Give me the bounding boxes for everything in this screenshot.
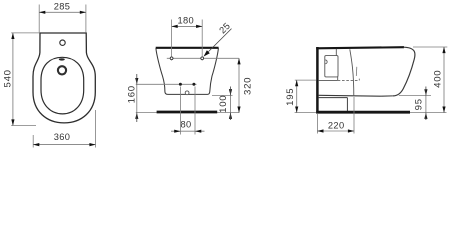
dim 160 top outside arrow <box>135 78 138 84</box>
side front edge <box>393 47 415 96</box>
svg-text:360: 360 <box>54 132 71 142</box>
side bowl rear short line <box>355 67 358 76</box>
front bolt dots line <box>136 83 197 85</box>
svg-text:95: 95 <box>413 98 424 110</box>
dim 360 ext lines <box>32 135 34 148</box>
front bolt dot left <box>179 83 182 86</box>
leader 25 arrowhead <box>204 50 210 56</box>
front top edge (thick) <box>156 47 219 49</box>
dim 95 bottom outside arrow <box>424 113 427 119</box>
side tap deck connector <box>335 49 337 56</box>
front fixing hole right <box>201 57 204 60</box>
svg-text:100: 100 <box>218 95 229 113</box>
dim 180 ext lines <box>171 20 173 61</box>
svg-text:160: 160 <box>127 85 138 103</box>
side lower second line <box>319 97 348 99</box>
front floor bar (thick) <box>157 111 218 114</box>
side bottom edge <box>319 94 393 97</box>
dim 285 ext lines <box>38 5 40 33</box>
plan drain ring <box>58 66 66 74</box>
side trap riser dashed <box>358 77 360 80</box>
front drain circle <box>185 91 189 95</box>
svg-text:195: 195 <box>285 88 296 106</box>
dim 220 right ext line <box>353 97 355 134</box>
dim 285 line <box>39 11 86 13</box>
plan inner bowl <box>41 57 84 114</box>
side inlet line solid <box>337 77 339 81</box>
side tap box notch <box>325 60 327 64</box>
dim 80 line <box>171 130 205 132</box>
side pedestal right edge <box>346 98 348 111</box>
plan faucet hole <box>60 40 65 45</box>
dim 180 line <box>172 25 203 27</box>
svg-text:180: 180 <box>178 16 195 26</box>
svg-text:540: 540 <box>3 69 14 87</box>
front hole line <box>167 57 239 59</box>
svg-text:320: 320 <box>243 77 254 95</box>
dim 540 ext lines <box>11 32 39 34</box>
front fixing hole left <box>170 57 173 60</box>
side wall (thick) <box>316 47 319 113</box>
dim 100 top outside arrow <box>229 89 232 95</box>
dim 195 line <box>296 80 298 113</box>
dim 80 right outside arrow <box>195 130 201 133</box>
front body outline <box>156 48 219 94</box>
dim 95 line <box>425 96 427 113</box>
plan body outline <box>33 33 95 123</box>
dim 100 bottom outside arrow <box>229 113 232 119</box>
dim 540 line <box>12 33 14 126</box>
svg-text:80: 80 <box>180 119 191 129</box>
svg-text:25: 25 <box>217 21 232 36</box>
dim 95 top ext line <box>399 95 431 97</box>
dim 95 top outside arrow <box>424 89 427 95</box>
plan spout ellipse <box>59 58 65 60</box>
svg-text:400: 400 <box>432 70 443 88</box>
side trap line solid <box>319 79 338 81</box>
dim 320 line <box>238 58 240 112</box>
side tap box <box>325 56 338 77</box>
svg-text:220: 220 <box>328 120 345 130</box>
dim 80 left outside arrow <box>174 130 180 133</box>
side top edge (thick) <box>316 47 404 48</box>
svg-text:285: 285 <box>54 2 71 12</box>
leader 25 line <box>205 29 232 56</box>
side floor bar (thick) <box>316 111 410 114</box>
dim 80 ext lines <box>180 87 182 135</box>
dim 160 line <box>136 84 138 112</box>
dim 400 top ext line <box>413 46 447 48</box>
front bolt dot right <box>192 83 195 86</box>
side floor line <box>295 112 447 114</box>
dim 100 line <box>230 95 232 112</box>
dim 195 top ext line <box>295 79 316 81</box>
front body bottom ext line <box>212 94 233 96</box>
side trap line dashed <box>338 79 360 81</box>
dim 400 line <box>443 47 445 113</box>
dim 160 bottom outside arrow <box>135 113 138 119</box>
dim 360 line <box>33 144 95 146</box>
front floor line <box>136 112 240 114</box>
dim 220 line <box>317 130 354 132</box>
dim 220 left ext line <box>316 114 318 134</box>
side bowl rear curve <box>350 49 354 96</box>
